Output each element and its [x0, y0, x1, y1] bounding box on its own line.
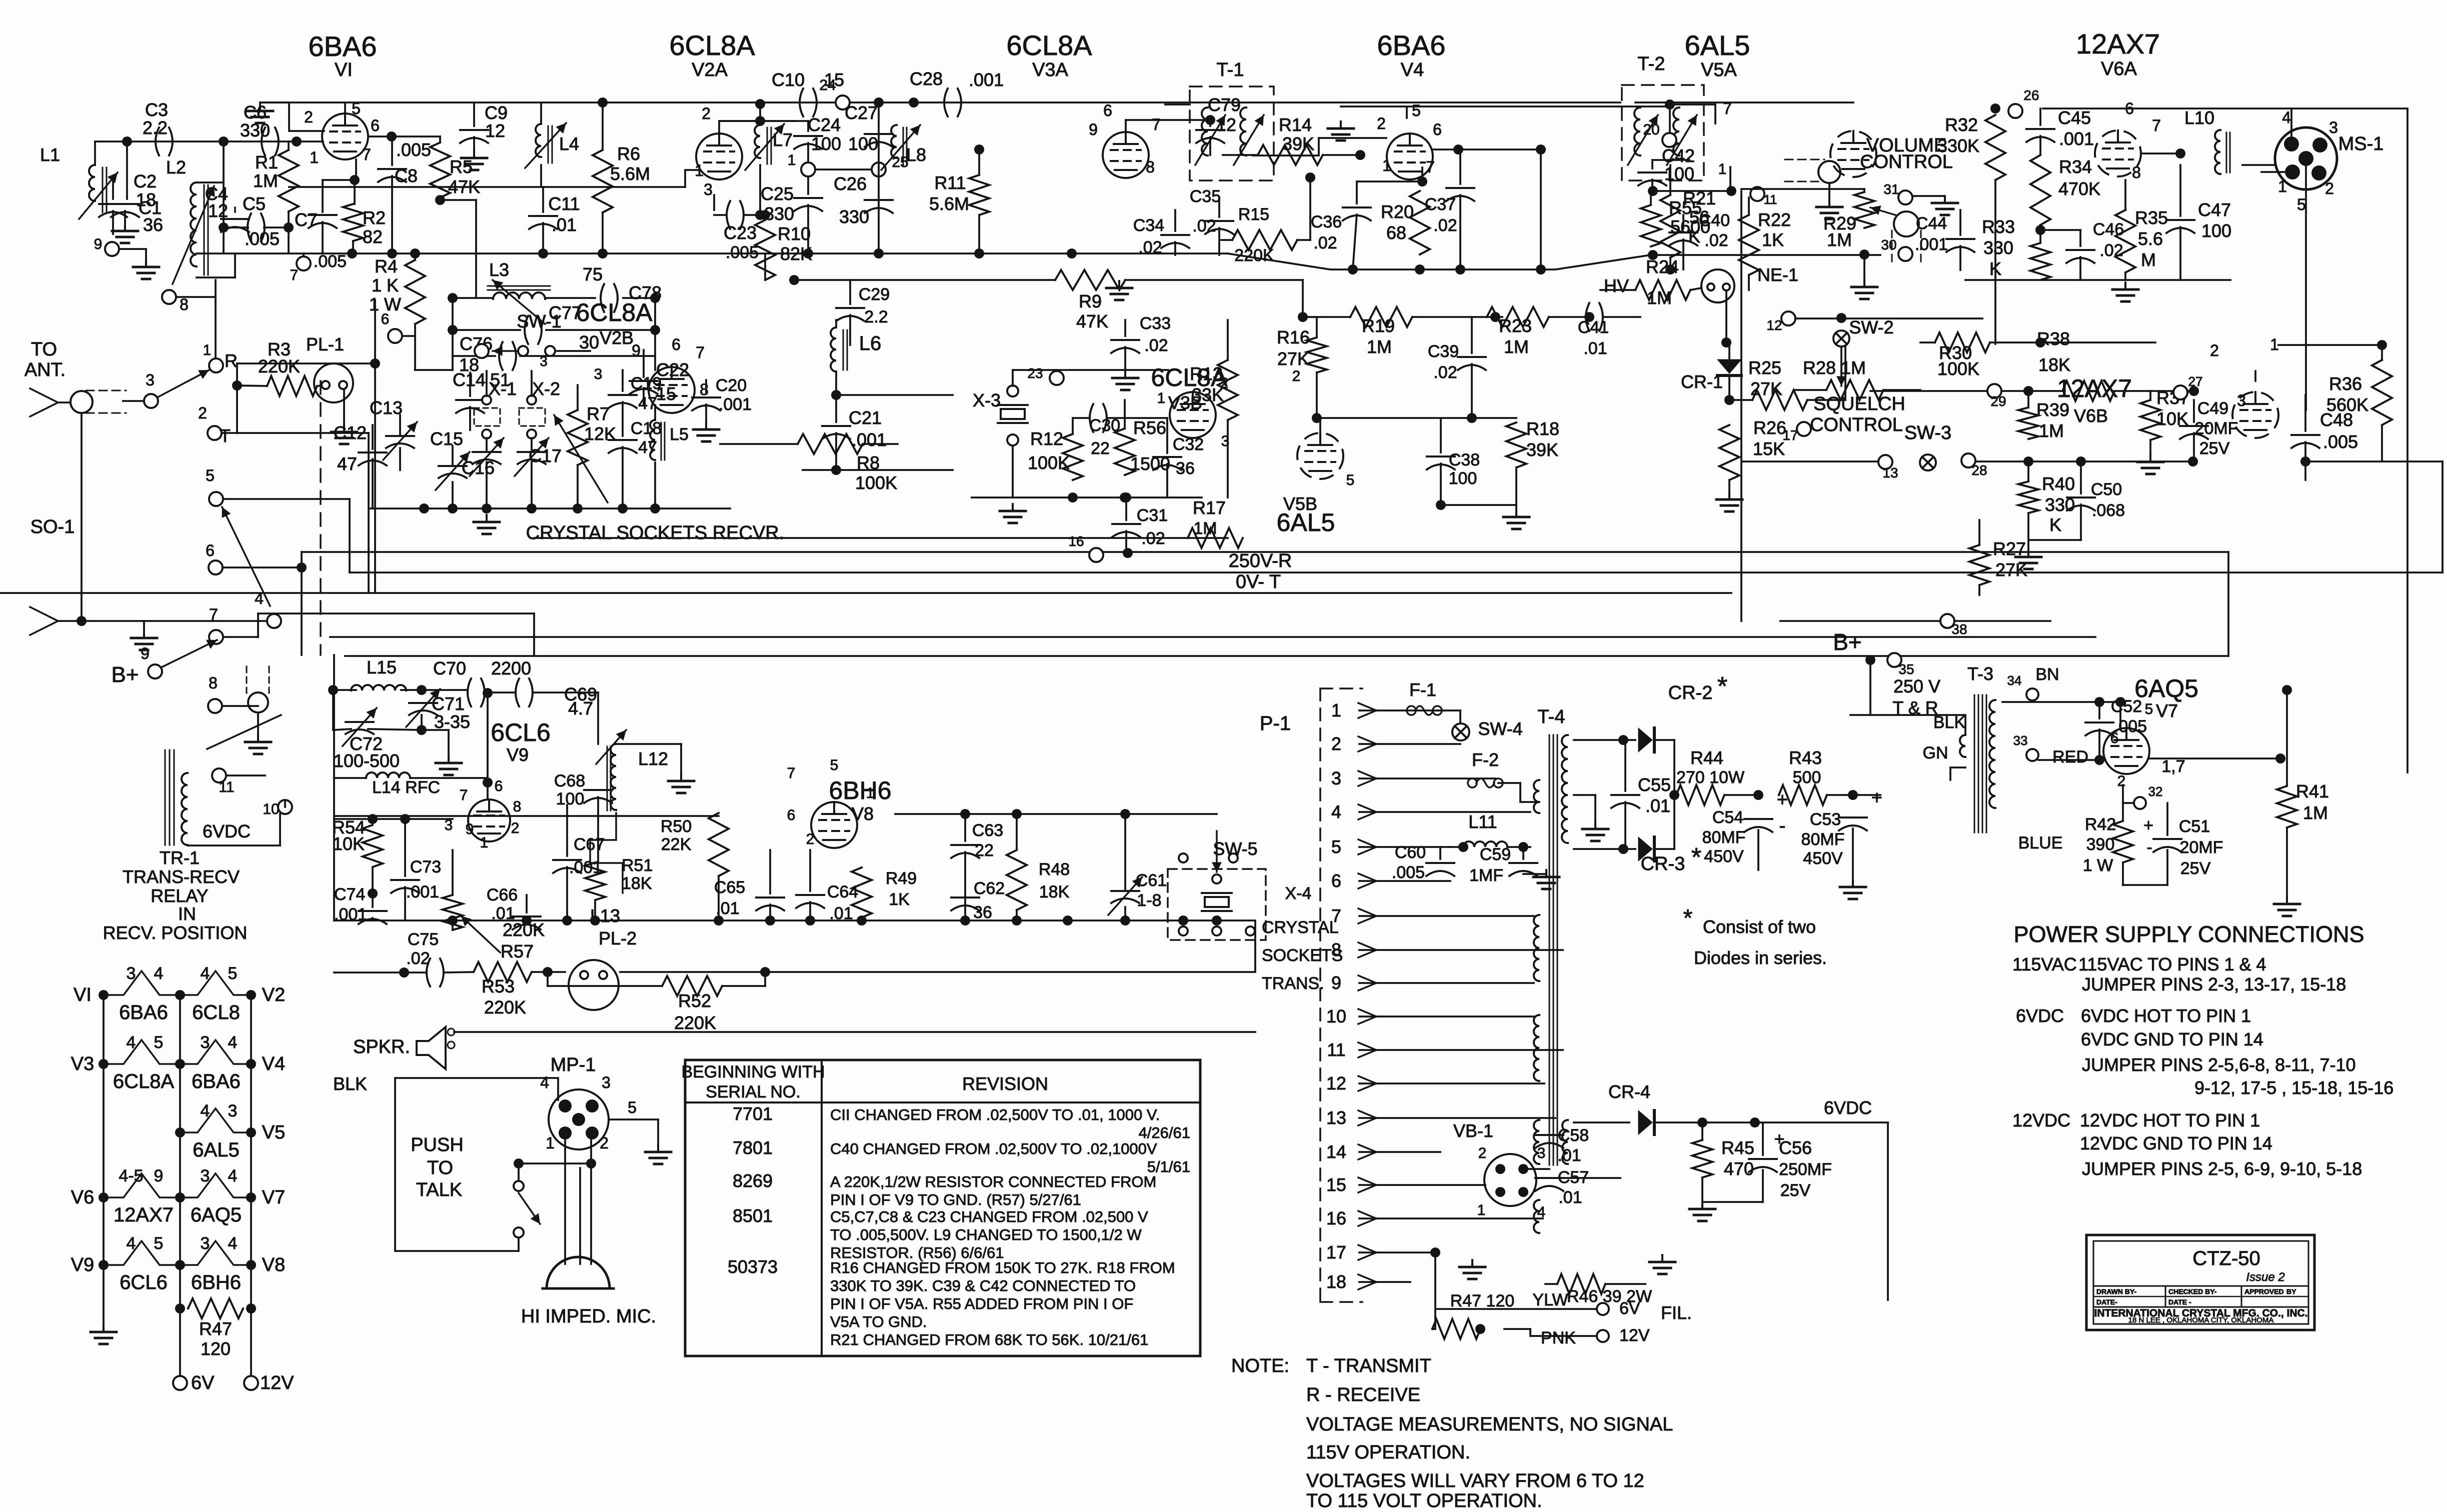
- capacitor C63: [951, 845, 979, 858]
- capacitor C48: [2291, 435, 2319, 448]
- svg-text:4: 4: [201, 964, 210, 983]
- svg-text:C14: C14: [453, 369, 486, 390]
- junction xtal bus: [618, 503, 628, 513]
- connector MP-1: [549, 1089, 609, 1149]
- wire c49 up: [2193, 400, 2195, 422]
- wire C11 a: [542, 187, 544, 212]
- svg-text:P-1: P-1: [1260, 712, 1291, 734]
- wire L3 core b: [488, 289, 550, 291]
- op-amp V1 tube 6BA6: [322, 113, 368, 159]
- junction tx bus 1437: [714, 915, 724, 925]
- inductor L5: [650, 420, 655, 460]
- capacitor C35: [1205, 221, 1233, 234]
- svg-text:6: 6: [1433, 120, 1442, 138]
- wire r14 a: [1223, 154, 1258, 156]
- ground c57: [1649, 1255, 1675, 1274]
- svg-text:C61: C61: [1136, 871, 1167, 890]
- wire c45 dn: [2039, 136, 2041, 155]
- svg-text:7: 7: [787, 765, 796, 781]
- junction: [175, 1303, 185, 1313]
- svg-text:39K: 39K: [1282, 133, 1314, 154]
- svg-text:T-4: T-4: [1538, 706, 1565, 727]
- terminal 6V: [173, 1376, 187, 1390]
- svg-text:25V: 25V: [1780, 1181, 1811, 1200]
- ptt contact a: [514, 1181, 524, 1191]
- svg-text:28: 28: [1971, 462, 1987, 478]
- resistor R30: [1935, 332, 1990, 352]
- svg-text:C48: C48: [2320, 409, 2353, 430]
- node pin7: [350, 175, 360, 185]
- wire bus y1106: [302, 551, 2228, 553]
- wire R1 bot: [288, 211, 290, 253]
- wire R9 right: [1125, 279, 1303, 281]
- svg-text:R13: R13: [1190, 363, 1223, 384]
- wire r30 b: [1990, 341, 2155, 343]
- wire t4 ctap gnd: [1594, 795, 1596, 820]
- svg-text:4: 4: [1331, 801, 1341, 822]
- sw5 term e: [1212, 926, 1221, 935]
- ground R26: [1716, 492, 1742, 511]
- wire 1757 rail: [878, 102, 880, 253]
- wire L4 core a: [548, 126, 549, 163]
- wire r18 bot: [1515, 467, 1517, 505]
- node r36 top: [2377, 340, 2387, 350]
- wire c34 dn: [1174, 242, 1176, 255]
- svg-text:4: 4: [127, 1033, 136, 1052]
- wire r40 up: [2027, 461, 2029, 481]
- wire ptt route c: [395, 1078, 558, 1251]
- svg-text:8501: 8501: [733, 1205, 773, 1226]
- capacitor C6: [262, 127, 279, 155]
- svg-text:6VDC GND TO PIN 14: 6VDC GND TO PIN 14: [2081, 1029, 2263, 1049]
- wire c47 up: [2179, 165, 2181, 216]
- svg-text:25V: 25V: [2199, 439, 2230, 458]
- wire c51 up: [2166, 803, 2168, 835]
- svg-text:500: 500: [1793, 768, 1821, 787]
- filament 6BH6: [180, 1241, 251, 1265]
- svg-text:R9: R9: [1079, 291, 1102, 311]
- junction tx bus 1190: [590, 915, 600, 925]
- capacitor C76: [499, 342, 516, 370]
- wire r15 b: [1297, 239, 1310, 241]
- arrow pin 3: [1358, 771, 1376, 786]
- svg-text:C28: C28: [910, 68, 943, 89]
- wire r14 b: [1323, 154, 1360, 156]
- svg-text:TO .005,500V. L9 CHANGED TO 15: TO .005,500V. L9 CHANGED TO 1500,1/2 W: [830, 1226, 1142, 1243]
- relay contact circle: [248, 692, 268, 712]
- wire V1 pin6: [368, 135, 440, 137]
- terminal sw1 a: [475, 344, 489, 358]
- node v9 plate: [483, 777, 493, 787]
- node x3 b: [1120, 492, 1130, 502]
- resistor R46: [1557, 1274, 1605, 1294]
- node v4 pin6: [1453, 144, 1463, 154]
- svg-text:TO: TO: [427, 1157, 453, 1178]
- svg-text:C62: C62: [974, 879, 1005, 898]
- node c21: [831, 465, 841, 475]
- node r44 in: [1669, 790, 1679, 800]
- svg-text:C25: C25: [761, 183, 794, 204]
- svg-text:27K: 27K: [1277, 348, 1309, 369]
- resistor R23: [1487, 307, 1549, 327]
- arrow sw5: [1212, 831, 1222, 872]
- svg-text:330: 330: [839, 206, 869, 227]
- wire L7 bus: [759, 102, 761, 121]
- wire c67 b: [566, 867, 568, 920]
- capacitor C24: [794, 136, 822, 149]
- crystal X-2 socket: [519, 408, 545, 426]
- wire pin 7: [1359, 915, 1534, 917]
- wire c13 b: [399, 448, 401, 470]
- wire c54 dn: [1757, 830, 1759, 870]
- arrow T-1 pri: [1195, 115, 1225, 165]
- ground v8 grid: [668, 774, 694, 793]
- svg-text:1MF: 1MF: [1469, 866, 1503, 885]
- wire l15 a: [333, 689, 356, 691]
- svg-text:1: 1: [866, 785, 875, 801]
- node sw3: [2188, 456, 2198, 466]
- wire c50 row: [2028, 539, 2081, 541]
- wire term5 drop: [349, 499, 351, 571]
- svg-text:1K: 1K: [1762, 229, 1784, 250]
- svg-text:47K: 47K: [1076, 311, 1108, 331]
- varcap C16 x1: [473, 452, 501, 464]
- svg-text:CONTROL: CONTROL: [1810, 414, 1903, 435]
- node L7 top: [755, 116, 765, 126]
- svg-text:C55: C55: [1638, 774, 1671, 795]
- wire r21 up: [1669, 165, 1671, 195]
- mp1 pin 2: [586, 1126, 599, 1139]
- wire t1 in: [1165, 103, 1190, 105]
- svg-text:PNK: PNK: [1541, 1328, 1576, 1347]
- node grid V1 c: [292, 136, 302, 146]
- svg-text:2: 2: [702, 104, 711, 122]
- svg-text:C38: C38: [1449, 450, 1480, 469]
- svg-text:120: 120: [201, 1338, 231, 1359]
- node L7 bus: [755, 99, 765, 109]
- svg-text:.02: .02: [1433, 216, 1457, 235]
- wire L7 top: [759, 121, 761, 125]
- svg-text:6CL8A: 6CL8A: [669, 29, 755, 61]
- terminal 16: [1089, 548, 1103, 562]
- resistor R4: [405, 260, 425, 324]
- diode CR-2: [1638, 728, 1654, 752]
- svg-text:C45: C45: [2058, 107, 2091, 128]
- node cr4 b: [1750, 1117, 1760, 1127]
- wire r22 up: [1748, 197, 1750, 215]
- svg-text:C21: C21: [849, 407, 882, 428]
- svg-text:9: 9: [94, 236, 103, 252]
- wire jack dash1: [1785, 159, 1824, 160]
- svg-text:V4: V4: [1401, 59, 1424, 80]
- svg-text:1-8: 1-8: [1137, 891, 1161, 910]
- node c53 top: [1848, 790, 1858, 800]
- wire ms1 pin1: [2261, 171, 2292, 173]
- wire r26 dn: [1728, 480, 1730, 492]
- wire L2 join: [197, 181, 224, 183]
- wire bplus drop: [1869, 660, 1871, 715]
- wire vc dash b: [1920, 230, 1922, 263]
- wire c29 up: [849, 280, 851, 304]
- wire right col b: [2441, 461, 2443, 572]
- resistor R47b: [1432, 1319, 1480, 1339]
- wire termR up: [215, 280, 217, 358]
- svg-text:450V: 450V: [1704, 847, 1744, 866]
- svg-text:100: 100: [1449, 469, 1477, 488]
- wire tank right: [654, 298, 656, 356]
- inductor T4 left low: [1534, 1120, 1539, 1164]
- terminal 28: [1961, 453, 1975, 467]
- capacitor C28: [944, 88, 961, 116]
- capacitor C53: [1839, 817, 1867, 830]
- wire term8: [222, 705, 258, 707]
- node grid V1 a: [122, 136, 132, 146]
- capacitor C65: [756, 897, 784, 910]
- wire l11 a: [1450, 846, 1463, 848]
- svg-text:RELAY: RELAY: [151, 885, 208, 906]
- resistor R53: [474, 962, 532, 982]
- svg-text:9: 9: [466, 821, 474, 837]
- wire C9 b: [473, 137, 475, 151]
- capacitor C66: [513, 916, 541, 929]
- svg-text:6: 6: [381, 311, 390, 327]
- capacitor C14: [456, 400, 484, 413]
- wire t4 to rect: [1574, 739, 1635, 741]
- resistor R48: [1007, 850, 1027, 910]
- wire c22 dn: [643, 388, 645, 405]
- wire term6: [402, 335, 415, 337]
- svg-text:L12: L12: [638, 748, 668, 769]
- wire T3 core 3948: [1974, 695, 1975, 832]
- svg-text:220K: 220K: [484, 997, 526, 1017]
- svg-text:*: *: [1717, 672, 1727, 701]
- svg-text:R41: R41: [2296, 781, 2329, 801]
- svg-text:3: 3: [1537, 1145, 1546, 1161]
- wire r27 dn: [1978, 585, 1980, 595]
- svg-text:CR-4: CR-4: [1608, 1081, 1650, 1102]
- svg-text:7: 7: [209, 605, 218, 623]
- svg-text:330: 330: [1983, 237, 2013, 258]
- svg-text:1: 1: [1477, 1202, 1486, 1218]
- wire grid bus right: [1228, 253, 1880, 269]
- wire c65 b: [769, 904, 771, 920]
- p1 dashed box bottom: [1320, 1301, 1362, 1303]
- svg-text:R - RECEIVE: R - RECEIVE: [1306, 1384, 1420, 1405]
- lamp SW-4: [1452, 723, 1469, 740]
- resistor R3: [267, 376, 317, 396]
- svg-text:R12: R12: [1030, 428, 1063, 449]
- svg-text:9-12, 17-5 , 15-18, 15-16: 9-12, 17-5 , 15-18, 15-16: [2194, 1077, 2393, 1098]
- wire V2A plate: [718, 121, 720, 133]
- capacitor C54: [1744, 819, 1772, 832]
- svg-text:R40: R40: [2042, 473, 2075, 494]
- wire f2 out: [1498, 782, 1520, 784]
- wire L12 core b: [610, 746, 612, 810]
- wire C5 left: [223, 182, 225, 253]
- junction: [246, 1260, 256, 1270]
- wire c48 dn: [2304, 442, 2306, 480]
- svg-text:T: T: [220, 425, 231, 446]
- capacitor C29: [836, 308, 864, 321]
- svg-text:20: 20: [1643, 121, 1659, 138]
- resistor R7: [568, 410, 588, 465]
- wire pin7: [355, 159, 357, 180]
- wire c73 b: [404, 887, 406, 920]
- wire t3 blk: [1850, 715, 1965, 735]
- node r41 top: [2282, 685, 2292, 695]
- terminal 6: [388, 329, 402, 343]
- wire ms1 pin5: [2305, 166, 2307, 410]
- svg-text:6: 6: [1103, 101, 1112, 119]
- wire bus 1227: [258, 612, 534, 614]
- svg-text:.005: .005: [726, 243, 759, 262]
- capacitor C41: [1586, 303, 1603, 331]
- svg-text:35: 35: [1898, 661, 1914, 677]
- terminal x1 bot: [482, 429, 491, 438]
- svg-text:270 10W: 270 10W: [1676, 768, 1744, 787]
- capacitor C60: [1426, 863, 1454, 876]
- wire L6 core: [843, 330, 844, 370]
- svg-text:6AL5: 6AL5: [1277, 508, 1335, 536]
- svg-text:9: 9: [154, 1166, 164, 1185]
- wire ptt row: [519, 1162, 591, 1164]
- wire v8 gnd: [680, 744, 682, 773]
- capacitor C70: [468, 678, 485, 706]
- svg-text:12VDC GND TO PIN 14: 12VDC GND TO PIN 14: [2080, 1133, 2272, 1153]
- svg-text:.01: .01: [552, 214, 577, 235]
- svg-text:TO: TO: [31, 339, 57, 360]
- svg-text:REVISION: REVISION: [962, 1073, 1048, 1094]
- inductor T-1 primary: [1202, 107, 1208, 155]
- capacitor C77: [525, 316, 542, 344]
- svg-text:V2A: V2A: [692, 59, 728, 80]
- svg-text:R35: R35: [2135, 207, 2168, 228]
- svg-text:2: 2: [2117, 773, 2126, 789]
- resistor R43: [1779, 785, 1827, 805]
- wire v4 grid: [1253, 138, 1386, 155]
- arrow T-2 sec: [1667, 115, 1697, 165]
- capacitor C32: [1153, 457, 1181, 470]
- junction tx bus 1053: [522, 915, 532, 925]
- resistor R38: [2062, 381, 2114, 401]
- wire gnd v5b: [1515, 505, 1517, 510]
- wire c15: [452, 446, 454, 466]
- svg-text:6AQ5: 6AQ5: [2134, 674, 2198, 702]
- capacitor C50: [2067, 497, 2095, 510]
- term x3 bot: [1007, 434, 1018, 445]
- capacitor C2: [111, 204, 139, 217]
- svg-text:APPROVED: APPROVED: [2244, 1287, 2284, 1295]
- svg-text:220K: 220K: [1234, 246, 1274, 265]
- svg-text:82: 82: [363, 226, 383, 247]
- resistor R52: [662, 976, 722, 996]
- svg-text:6BA6: 6BA6: [1377, 29, 1446, 61]
- wire c19 rail: [622, 370, 624, 391]
- wire r36 c48 row: [2305, 460, 2442, 462]
- wire pl1 gnd stem: [343, 389, 345, 424]
- wire r29 up: [1863, 189, 1865, 192]
- ground PL-1: [331, 425, 357, 444]
- wire v4 top rail: [1341, 105, 1670, 107]
- wire c68 b: [597, 797, 599, 862]
- capacitor C49: [2180, 426, 2208, 439]
- wire 12V drop: [250, 1308, 252, 1383]
- wire L2 bottom b: [234, 253, 236, 277]
- wire c35 up: [1218, 198, 1220, 217]
- svg-text:6VDC: 6VDC: [203, 821, 251, 841]
- capacitor C11: [529, 216, 557, 229]
- wire T3 core 3964: [1982, 695, 1983, 832]
- wire c44 dn: [1959, 246, 1961, 270]
- wire c36 dn: [1353, 214, 1357, 269]
- filament 6AQ5: [180, 1173, 251, 1197]
- wire pin 2: [1359, 743, 1460, 745]
- capacitor C7: [309, 215, 337, 228]
- wire r40 dn: [2027, 513, 2029, 550]
- wire L6 core b: [847, 330, 848, 370]
- svg-text:4: 4: [540, 1073, 549, 1091]
- svg-text:R5: R5: [450, 156, 473, 177]
- svg-text:17: 17: [1326, 1242, 1346, 1262]
- wire r52 a: [547, 972, 549, 986]
- wire L7 core a: [767, 127, 768, 164]
- svg-text:250V-R: 250V-R: [1229, 550, 1292, 571]
- junction tx bus 2250: [1120, 915, 1130, 925]
- wire c59 gnd: [1523, 873, 1546, 875]
- wire pin 8: [1359, 949, 1563, 951]
- wire c38 up: [1440, 418, 1442, 452]
- ground C53: [1840, 880, 1866, 899]
- node C5 a: [219, 222, 229, 232]
- svg-text:TR-1: TR-1: [160, 847, 200, 868]
- svg-text:330K TO 39K. C39 & C42 CONNECT: 330K TO 39K. C39 & C42 CONNECTED TO: [830, 1277, 1136, 1294]
- filament 6CL8A: [104, 1040, 180, 1064]
- node v4 colbot: [1536, 264, 1546, 274]
- svg-text:80MF: 80MF: [1702, 828, 1746, 847]
- resistor R40: [2018, 481, 2038, 513]
- svg-text:5: 5: [2297, 195, 2306, 213]
- svg-text:11: 11: [1764, 192, 1777, 207]
- fuse F-2: [1468, 778, 1503, 787]
- svg-text:6CL8A: 6CL8A: [113, 1070, 175, 1092]
- vb1 pin 3: [1518, 1164, 1528, 1174]
- wire right border vertical: [2406, 108, 2408, 772]
- resistor R19: [1350, 307, 1412, 327]
- svg-text:Diodes in series.: Diodes in series.: [1694, 947, 1827, 968]
- svg-text:2: 2: [806, 831, 815, 847]
- svg-text:R57: R57: [501, 941, 534, 961]
- wire tank mid b: [546, 329, 655, 331]
- svg-text:L3: L3: [489, 259, 509, 280]
- svg-text:12VDC HOT TO PIN 1: 12VDC HOT TO PIN 1: [2080, 1110, 2260, 1130]
- svg-text:1: 1: [1157, 390, 1166, 406]
- wire rect left top: [1622, 739, 1624, 741]
- svg-text:115V OPERATION.: 115V OPERATION.: [1306, 1442, 1470, 1463]
- sw5 term f: [1246, 926, 1255, 935]
- capacitor C27: [865, 134, 893, 147]
- resistor R24: [1635, 280, 1690, 300]
- junction: [99, 1059, 109, 1069]
- svg-text:16: 16: [1068, 533, 1084, 549]
- wire V1 pin2: [289, 102, 324, 131]
- capacitor C23: [727, 201, 744, 229]
- wire plate row: [719, 120, 795, 122]
- svg-text:RED: RED: [2052, 747, 2088, 766]
- svg-text:11: 11: [219, 779, 234, 795]
- wire sw3 a: [1741, 460, 1878, 462]
- svg-text:BY: BY: [2286, 1287, 2296, 1295]
- lamp SW-3: [1920, 454, 1936, 470]
